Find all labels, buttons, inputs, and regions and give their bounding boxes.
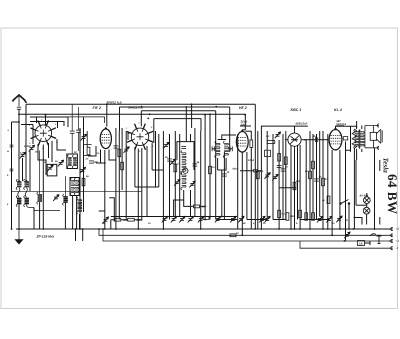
trimmer bottom row bbox=[171, 216, 177, 222]
wire bus3 bbox=[103, 229, 389, 241]
ground bbox=[16, 229, 23, 244]
wire bus E1 bbox=[51, 117, 105, 123]
wire drop x190 lower bbox=[190, 190, 192, 217]
resistor R4 bbox=[118, 149, 121, 157]
coil L1 antenna primary bbox=[0, 0, 1, 1]
wire T2 pin3 bbox=[109, 150, 116, 161]
trimmer C37 bbox=[259, 216, 265, 222]
wire stub T1 left bbox=[21, 124, 33, 126]
trimmer C34 bbox=[103, 217, 109, 223]
wire drop x258 bbox=[257, 131, 259, 229]
junction bbox=[45, 114, 47, 116]
wire T3 pin drop 5 bbox=[151, 143, 153, 170]
wire trimmer drop bbox=[29, 151, 31, 192]
trimmer C11 bbox=[163, 142, 169, 148]
wire mid drop1 bbox=[146, 187, 148, 217]
wire drop x122 bbox=[121, 128, 123, 190]
wire mid link1 bbox=[135, 186, 159, 188]
svg-text:0.1: 0.1 bbox=[266, 135, 270, 138]
wire row link4 bbox=[273, 219, 286, 221]
wire drop x201 bbox=[200, 131, 202, 229]
label Tesla 64 BW bbox=[381, 158, 400, 215]
wire C33 top bbox=[78, 107, 80, 130]
wire R20 drop bbox=[353, 149, 355, 230]
wire T4 cathode drop bbox=[241, 153, 243, 236]
junction bbox=[115, 228, 117, 230]
coil T1 output secondary bbox=[359, 129, 364, 148]
wire drop to bus3 b bbox=[82, 229, 84, 241]
wire T1 grid cap feed bbox=[45, 115, 47, 126]
wire drop x273 bbox=[272, 134, 274, 220]
trimmer C20 bbox=[275, 132, 281, 138]
wire to KL4 grid bbox=[318, 139, 328, 141]
resistor R16 bbox=[299, 210, 302, 218]
wire t2 link bbox=[96, 162, 105, 164]
wire stage2 left drop bbox=[79, 128, 81, 229]
wire drop x300 bbox=[299, 145, 301, 229]
junction bbox=[75, 228, 77, 230]
resistor R3 bbox=[82, 178, 85, 186]
capacitor C33 bbox=[76, 130, 81, 132]
trimmer C6 bbox=[81, 134, 87, 140]
wire trimmer drop2 bbox=[22, 158, 24, 181]
resistor R12 bbox=[284, 157, 287, 165]
wire T1 pin drop 1 bbox=[38, 144, 46, 175]
svg-text:2n: 2n bbox=[331, 222, 335, 225]
wire IFT bottom bbox=[218, 158, 227, 170]
wire label underline bbox=[240, 125, 251, 127]
wire drop x180 bbox=[179, 134, 181, 217]
tube V1 FIF2 mixer (top view) bbox=[31, 120, 57, 146]
wire T3 pin drop 3 bbox=[141, 148, 143, 220]
wire T2 pin4 bbox=[88, 146, 96, 156]
wire drop x261 bbox=[260, 151, 262, 230]
wire link bbox=[109, 198, 114, 220]
wire R9 top bbox=[250, 131, 252, 140]
wire coil prim return bbox=[18, 205, 20, 230]
junction bbox=[26, 180, 28, 182]
trimmer C35 bbox=[162, 216, 168, 222]
junction bbox=[141, 106, 143, 108]
wire drop x313 bbox=[312, 134, 314, 220]
resistor R9 bbox=[250, 140, 253, 148]
wire to R8 bbox=[184, 200, 205, 206]
wire drop x205 bbox=[204, 115, 206, 220]
wire det link bbox=[279, 187, 296, 189]
wire T5 anode right bbox=[304, 139, 315, 141]
wire link r2 top bbox=[84, 144, 92, 146]
wire drop x344 bbox=[345, 150, 347, 241]
capacitor C19 bbox=[222, 174, 227, 176]
junction bbox=[102, 228, 104, 230]
wire stub3 bbox=[57, 122, 59, 129]
svg-text:Tesla: Tesla bbox=[381, 158, 389, 174]
capacitor C23 bbox=[314, 179, 319, 181]
trimmer C5 bbox=[53, 195, 59, 201]
wire bus B right drop bbox=[229, 107, 231, 152]
wire T1 pin drop 3 bbox=[51, 141, 53, 162]
wire bbox=[76, 196, 78, 230]
tube V3 pin numbers bbox=[126, 122, 154, 153]
wire speaker drop bbox=[374, 148, 376, 229]
svg-text:2n: 2n bbox=[147, 222, 151, 225]
wire top bus A bbox=[26, 103, 255, 105]
coil L14 IFT primary bbox=[215, 141, 220, 158]
wire drop x195 bbox=[194, 128, 196, 217]
switch S1 bbox=[340, 200, 350, 205]
svg-text:-1: -1 bbox=[396, 246, 399, 250]
wire bus E right drop bbox=[200, 119, 202, 131]
wire band switch bus bbox=[12, 190, 142, 192]
junction bbox=[354, 217, 356, 219]
junction bbox=[331, 234, 333, 236]
wire T5 anode bbox=[304, 139, 306, 141]
junction bbox=[79, 228, 81, 230]
wire drop x297 bbox=[297, 145, 299, 220]
wire C32 bottom bbox=[71, 133, 73, 154]
junction bbox=[11, 228, 13, 230]
junction bbox=[261, 228, 263, 230]
svg-text:2n: 2n bbox=[164, 156, 168, 159]
resistor R23 bbox=[256, 171, 259, 179]
capacitor C7 bbox=[89, 161, 94, 163]
coil L1 antenna primary upper bbox=[16, 179, 21, 189]
trimmer C11b bbox=[170, 159, 176, 165]
wire C26 link bbox=[240, 170, 261, 172]
junction bbox=[309, 228, 311, 230]
trimmer C30 bbox=[336, 216, 342, 222]
trimmer C28 bbox=[317, 216, 323, 222]
junction bbox=[221, 216, 223, 218]
wire bus C right drop bbox=[215, 111, 217, 220]
wire drop x279 bbox=[278, 140, 280, 229]
wire IFT top link bbox=[218, 139, 227, 141]
wire trimmer box bbox=[47, 164, 57, 176]
wire top bus C bbox=[141, 110, 215, 112]
trimmer C24 bbox=[264, 173, 270, 179]
svg-text:2n: 2n bbox=[85, 158, 89, 161]
oscillator trimmer core bbox=[183, 168, 188, 173]
tube V6 KL4 output bbox=[329, 128, 342, 150]
wire T3 pin drop 4 bbox=[146, 146, 148, 187]
junction bbox=[18, 180, 20, 182]
coil L15 IFT secondary bbox=[223, 141, 228, 158]
coil L6 band bbox=[63, 194, 68, 205]
resistor R6 bbox=[114, 218, 121, 221]
wire coil L6 top bbox=[64, 176, 66, 196]
wire drop x267 bbox=[266, 131, 268, 220]
wire C33 bottom bbox=[78, 132, 80, 151]
capacitor C16 bbox=[230, 146, 232, 151]
wire band coil box bbox=[70, 178, 79, 196]
battery box LB bbox=[358, 241, 365, 246]
junction bbox=[374, 228, 376, 230]
resistor R18 bbox=[293, 182, 296, 190]
junction bbox=[18, 113, 20, 115]
wire bus2 bbox=[99, 229, 391, 235]
wire bbox=[79, 214, 81, 229]
coil L2 antenna secondary S-link bbox=[25, 188, 27, 198]
junction bbox=[204, 219, 206, 221]
junction bbox=[344, 240, 346, 242]
wire drop x247 bbox=[246, 152, 248, 220]
wire to T4 top cap bbox=[242, 129, 245, 131]
wire bus C left drop bbox=[140, 111, 142, 127]
wire AVC drop bbox=[110, 220, 112, 229]
tube V2 IF amplifier bbox=[100, 127, 111, 149]
coil L12 oscillator bbox=[181, 151, 186, 174]
wire OT sec top bbox=[361, 126, 363, 130]
junction bbox=[229, 118, 231, 120]
wire T1 cathode drop bbox=[42, 145, 44, 230]
resistor R13 bbox=[312, 161, 315, 169]
battery terminals bbox=[383, 227, 399, 250]
coil L5b bbox=[74, 178, 78, 195]
trimmer C1 bbox=[29, 145, 35, 151]
wire T2 top cap feed bbox=[106, 104, 108, 126]
wire stage2 drop b bbox=[83, 117, 85, 212]
wire T5 top bbox=[294, 126, 296, 130]
tube V3 (top view) bbox=[127, 124, 153, 150]
wire link r2 bot bbox=[84, 155, 92, 157]
wire drop x159 bbox=[158, 134, 160, 187]
wire to lamps bbox=[356, 204, 367, 206]
antenna series capacitor bbox=[17, 107, 21, 109]
tube V1 pin numbers bbox=[29, 119, 58, 150]
capacitor C40 bbox=[10, 169, 14, 171]
wire osc bottom bbox=[174, 190, 184, 217]
trimmer bottom row bbox=[179, 216, 185, 222]
resistor R30 bbox=[230, 234, 236, 237]
capacitor C21 bbox=[281, 169, 286, 171]
wire OT sec bot bbox=[361, 149, 363, 152]
resistor R26 bbox=[203, 217, 209, 220]
coil L1 antenna primary lower bbox=[16, 196, 21, 207]
wire drop x116 bbox=[115, 128, 117, 229]
wire bbox=[64, 203, 66, 229]
wire drop x286 bbox=[285, 131, 287, 220]
junction bbox=[104, 162, 106, 164]
wire antenna down bbox=[18, 109, 20, 114]
junction bbox=[290, 228, 292, 230]
wire top bus B bbox=[120, 106, 230, 108]
wire T3 grid in bbox=[128, 133, 131, 140]
trimmer C4 bbox=[58, 160, 64, 166]
capacitor C18 bbox=[193, 164, 198, 166]
coil L2 antenna secondary lower bbox=[24, 196, 29, 207]
svg-text:500/12 h.b: 500/12 h.b bbox=[107, 101, 122, 105]
resistor R7 bbox=[128, 218, 135, 221]
trimmer bottom row bbox=[198, 216, 204, 222]
jack J1 bbox=[370, 234, 382, 244]
wire drop x163 bbox=[162, 131, 164, 229]
junction bbox=[278, 228, 280, 230]
junction bbox=[113, 219, 115, 221]
trimmer C8 bbox=[80, 167, 86, 173]
wire stub bbox=[12, 121, 20, 123]
svg-text:50k: 50k bbox=[290, 215, 295, 218]
wire IFT cap l bbox=[212, 148, 216, 150]
wire drop x316 bbox=[316, 134, 318, 220]
junction bbox=[215, 106, 217, 108]
wire row link5 bbox=[300, 219, 329, 221]
svg-text:2x500: 2x500 bbox=[23, 145, 31, 148]
coil L11 bbox=[77, 197, 82, 214]
wire T3 pin drop 1 bbox=[134, 147, 136, 187]
wire switch drop bbox=[348, 204, 350, 230]
speaker LS1 bbox=[365, 124, 382, 150]
resistor R8 bbox=[194, 205, 200, 208]
wire lamp links bbox=[366, 193, 368, 218]
tube V5 KBC1 detector bbox=[285, 131, 304, 151]
junction bbox=[18, 228, 20, 230]
coil L4a oscillator bbox=[67, 155, 71, 168]
wire label underline 2 bbox=[336, 125, 344, 127]
wire IFT cap r bbox=[228, 148, 232, 150]
trimmer C10 bbox=[123, 147, 129, 153]
coil L4b oscillator bbox=[72, 155, 76, 168]
wire drop x340 bbox=[339, 150, 341, 229]
transformer core bbox=[358, 130, 361, 148]
wire drop x119 bbox=[118, 131, 120, 220]
resistor R2 bbox=[87, 147, 90, 155]
resistor R14 bbox=[278, 210, 281, 218]
capacitor C22 bbox=[277, 165, 282, 167]
antenna bbox=[13, 95, 26, 106]
wire lamp down bbox=[366, 218, 368, 225]
junction bbox=[18, 121, 20, 123]
wire drop x155 bbox=[155, 131, 157, 187]
wire oscillator box bbox=[177, 142, 194, 170]
wire row link6 bbox=[111, 216, 160, 218]
svg-text:ZP-126 kHz: ZP-126 kHz bbox=[36, 235, 55, 239]
capacitor C39 bbox=[10, 145, 14, 147]
junction bbox=[327, 228, 329, 230]
svg-text:KL 4: KL 4 bbox=[334, 108, 342, 112]
wire drop x126 bbox=[125, 131, 127, 220]
trimmer C25 bbox=[272, 174, 278, 180]
svg-text:6,4: 6,4 bbox=[314, 135, 318, 138]
wire drop x238 bbox=[237, 134, 239, 229]
junction bbox=[352, 228, 354, 230]
wire tuning frame inner bbox=[30, 122, 64, 127]
trimmer C36 bbox=[238, 216, 244, 222]
trimmer C3 bbox=[47, 165, 53, 171]
svg-text:-: - bbox=[396, 233, 397, 237]
wire T2 pin1 bbox=[100, 150, 102, 164]
svg-text:HF 2: HF 2 bbox=[239, 106, 247, 110]
wire drop x175 bbox=[174, 131, 176, 217]
wire drop x283 bbox=[282, 134, 284, 220]
wire frame T1 right bbox=[30, 117, 68, 127]
capacitor C26 bbox=[253, 170, 258, 172]
svg-text:m: m bbox=[7, 150, 9, 153]
wire KBC1 box top bbox=[261, 126, 308, 150]
coil L1 antenna primary S-link bbox=[18, 188, 20, 198]
capacitor C15 bbox=[212, 146, 214, 151]
wire screen drop bbox=[350, 126, 352, 152]
wire drop x291 bbox=[290, 145, 292, 229]
coil T1 output primary bbox=[354, 129, 359, 148]
junction bbox=[191, 103, 193, 105]
trimmer C27 bbox=[264, 216, 270, 222]
resistor R21 bbox=[174, 164, 177, 172]
wire bus A right drop bbox=[254, 104, 256, 229]
wire drop x380b bbox=[379, 217, 381, 225]
capacitor C17 bbox=[167, 159, 172, 161]
wire bbox=[39, 202, 41, 229]
wire row link3 bbox=[247, 219, 267, 221]
wire bus B left drop bbox=[119, 107, 121, 131]
svg-text:LB: LB bbox=[359, 243, 363, 246]
junction bbox=[200, 228, 202, 230]
resistor R27 bbox=[305, 213, 308, 221]
svg-text:+2: +2 bbox=[396, 227, 400, 231]
junction bbox=[98, 228, 100, 230]
wire drop x224 bbox=[223, 152, 225, 220]
wire drop x210 bbox=[209, 114, 211, 219]
wire bottom row link bbox=[160, 216, 237, 218]
junction bbox=[204, 114, 206, 116]
wire main ground bus bbox=[16, 228, 391, 230]
coil L5a bbox=[70, 178, 74, 195]
trimmer bottom row bbox=[215, 216, 221, 222]
junction bbox=[137, 228, 139, 230]
wire t3 link bbox=[152, 169, 163, 171]
resistor R5 bbox=[121, 162, 124, 170]
junction bbox=[82, 228, 84, 230]
wire bus4 bbox=[300, 241, 383, 248]
svg-text:4n: 4n bbox=[321, 199, 325, 202]
wire antenna drop to coil bbox=[18, 114, 20, 181]
trimmer C29 bbox=[326, 216, 332, 222]
wire drop x320 bbox=[319, 131, 321, 217]
wire T1 pin drop 2 bbox=[48, 143, 50, 158]
wire R9 bottom bbox=[250, 148, 252, 230]
wire LB contact bbox=[365, 241, 371, 245]
junction bbox=[254, 228, 256, 230]
svg-text:+1: +1 bbox=[396, 239, 400, 243]
junction bbox=[185, 106, 187, 108]
wire T3 pin drop 2 bbox=[137, 149, 139, 230]
trimmer C31 bbox=[344, 232, 350, 238]
junction bbox=[299, 228, 301, 230]
trimmer bottom row bbox=[230, 216, 236, 222]
wire T2 cathode drop bbox=[104, 150, 106, 229]
trimmer C12 bbox=[174, 180, 180, 186]
junction bbox=[106, 103, 108, 105]
junction bbox=[348, 228, 350, 230]
resistor R22 bbox=[209, 166, 212, 174]
junction bbox=[149, 113, 151, 115]
wire drop x306 bbox=[305, 140, 307, 220]
pilot lamp LA2 bbox=[363, 207, 370, 214]
svg-text:64 BW: 64 BW bbox=[385, 174, 400, 214]
wire drop bbox=[33, 208, 35, 230]
wire C32 top bbox=[71, 104, 73, 131]
wire drop x87 bbox=[86, 131, 88, 147]
resistor R29 small box bbox=[343, 137, 347, 140]
wire IFT to T4 grid bbox=[222, 135, 236, 140]
junction bbox=[147, 118, 149, 120]
resistor R17 bbox=[312, 213, 315, 221]
capacitor C32 bbox=[70, 131, 75, 133]
wire coil L3 top bbox=[39, 151, 41, 195]
wire coil sec return bbox=[27, 205, 61, 211]
wire OT top bbox=[356, 121, 358, 128]
resistor R24 bbox=[309, 171, 312, 179]
trimmer bottom row bbox=[188, 216, 194, 222]
